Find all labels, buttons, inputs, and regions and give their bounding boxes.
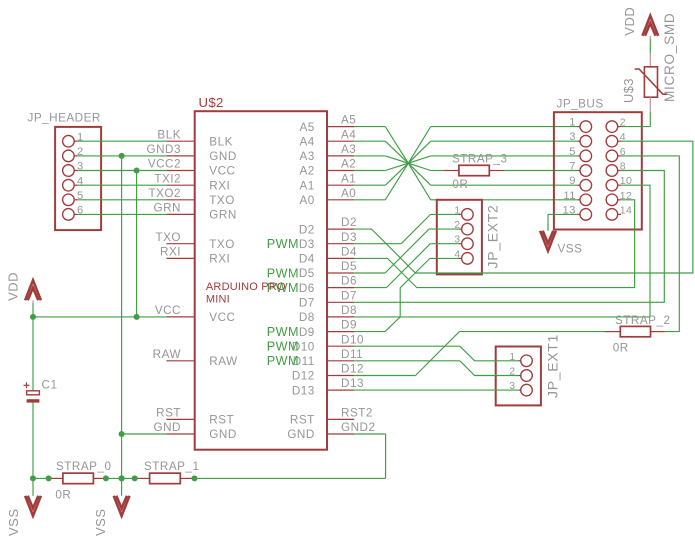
svg-text:STRAP_3: STRAP_3 — [452, 153, 507, 166]
svg-text:TXO2: TXO2 — [148, 187, 181, 200]
svg-text:PWM: PWM — [267, 340, 299, 354]
svg-text:VDD: VDD — [5, 272, 20, 301]
svg-text:D13: D13 — [292, 384, 315, 397]
svg-text:RXI: RXI — [209, 253, 230, 266]
svg-text:A2: A2 — [300, 165, 315, 178]
svg-text:0R: 0R — [613, 342, 629, 355]
svg-text:D6: D6 — [341, 275, 357, 288]
svg-text:RST: RST — [209, 414, 234, 427]
svg-text:7: 7 — [569, 161, 576, 173]
svg-text:BLK: BLK — [157, 128, 181, 141]
svg-text:D10: D10 — [341, 333, 364, 346]
svg-text:BLK: BLK — [209, 135, 233, 148]
svg-text:D3: D3 — [341, 231, 357, 244]
svg-text:A5: A5 — [300, 121, 315, 134]
svg-text:U$2: U$2 — [199, 95, 224, 110]
svg-text:JP_EXT2: JP_EXT2 — [484, 204, 500, 268]
svg-text:RST2: RST2 — [341, 407, 373, 420]
svg-text:1: 1 — [569, 117, 576, 129]
svg-text:D11: D11 — [341, 348, 363, 361]
svg-text:MINI: MINI — [206, 294, 230, 306]
svg-text:RXI: RXI — [160, 246, 181, 259]
svg-text:MICRO_SMD: MICRO_SMD — [662, 13, 677, 102]
svg-text:11: 11 — [563, 190, 576, 202]
svg-text:D4: D4 — [299, 253, 315, 266]
svg-text:D6: D6 — [299, 282, 315, 295]
svg-text:RST: RST — [156, 407, 181, 420]
svg-text:VCC: VCC — [209, 165, 235, 178]
svg-text:D7: D7 — [299, 296, 315, 309]
svg-text:PWM: PWM — [267, 266, 299, 280]
svg-text:A1: A1 — [341, 172, 356, 185]
svg-text:JP_EXT1: JP_EXT1 — [545, 334, 561, 398]
svg-text:C1: C1 — [42, 379, 58, 392]
svg-text:D5: D5 — [299, 267, 315, 280]
svg-text:VSS: VSS — [558, 243, 583, 256]
svg-text:A1: A1 — [300, 179, 315, 192]
svg-text:RXI: RXI — [209, 179, 230, 192]
svg-text:A4: A4 — [341, 128, 356, 141]
svg-text:A2: A2 — [341, 158, 356, 171]
svg-text:GRN: GRN — [209, 209, 236, 222]
svg-text:TXO: TXO — [209, 194, 235, 207]
svg-text:GND: GND — [287, 428, 314, 441]
svg-text:D8: D8 — [341, 304, 357, 317]
svg-text:A5: A5 — [341, 114, 356, 127]
svg-text:A3: A3 — [300, 150, 315, 163]
svg-text:STRAP_0: STRAP_0 — [56, 460, 111, 473]
svg-text:0R: 0R — [55, 488, 71, 501]
svg-text:D3: D3 — [299, 238, 315, 251]
svg-text:TXO: TXO — [209, 238, 235, 251]
svg-text:GND: GND — [209, 428, 236, 441]
svg-text:9: 9 — [569, 175, 576, 187]
svg-text:0R: 0R — [452, 178, 468, 191]
svg-text:GRN: GRN — [154, 202, 181, 215]
svg-text:14: 14 — [620, 204, 633, 216]
svg-text:U$3: U$3 — [621, 78, 636, 103]
svg-text:STRAP_1: STRAP_1 — [144, 460, 199, 473]
svg-text:D12: D12 — [341, 363, 364, 376]
svg-text:D5: D5 — [341, 260, 357, 273]
svg-text:RAW: RAW — [153, 348, 181, 361]
svg-text:TXO: TXO — [155, 231, 181, 244]
svg-text:STRAP_2: STRAP_2 — [615, 314, 670, 327]
svg-text:VSS: VSS — [6, 508, 21, 536]
svg-text:VCC: VCC — [155, 304, 181, 317]
svg-text:ARDUINO PRO: ARDUINO PRO — [206, 281, 286, 293]
svg-text:D9: D9 — [299, 326, 315, 339]
svg-text:5: 5 — [569, 146, 576, 158]
svg-text:A0: A0 — [300, 194, 315, 207]
svg-text:GND3: GND3 — [147, 143, 181, 156]
svg-text:D9: D9 — [341, 319, 357, 332]
svg-text:GND2: GND2 — [341, 421, 375, 434]
svg-text:D12: D12 — [292, 370, 315, 383]
svg-text:VCC: VCC — [209, 311, 235, 324]
svg-text:VCC2: VCC2 — [148, 158, 181, 171]
svg-text:VDD: VDD — [622, 7, 637, 36]
svg-text:RST: RST — [290, 414, 315, 427]
svg-text:PWM: PWM — [267, 325, 299, 339]
svg-text:A0: A0 — [341, 187, 356, 200]
svg-text:D7: D7 — [341, 289, 357, 302]
svg-text:VSS: VSS — [93, 508, 108, 536]
svg-text:A4: A4 — [300, 135, 315, 148]
svg-text:JP_BUS: JP_BUS — [557, 98, 604, 111]
svg-text:TXI2: TXI2 — [154, 172, 181, 185]
svg-text:D2: D2 — [299, 223, 315, 236]
svg-text:PWM: PWM — [267, 237, 299, 251]
svg-text:GND: GND — [154, 421, 181, 434]
svg-text:3: 3 — [569, 131, 576, 143]
svg-text:D13: D13 — [341, 377, 364, 390]
svg-text:D2: D2 — [341, 216, 357, 229]
svg-text:A3: A3 — [341, 143, 356, 156]
svg-text:PWM: PWM — [267, 354, 299, 368]
svg-text:D4: D4 — [341, 246, 357, 259]
svg-text:D8: D8 — [299, 311, 315, 324]
svg-text:RAW: RAW — [209, 355, 237, 368]
svg-text:GND: GND — [209, 150, 236, 163]
svg-text:JP_HEADER: JP_HEADER — [28, 112, 101, 125]
